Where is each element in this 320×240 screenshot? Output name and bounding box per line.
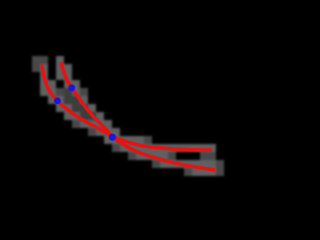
jpeg artifact gray blocks along curves: [32, 56, 224, 176]
marker M1 on curve 1: [54, 97, 61, 104]
marker M2 on curve 2: [68, 84, 75, 91]
curve 1 (left red decay curve, upper tail): [42, 65, 213, 151]
marker M3 at crossing of the curves: [109, 134, 116, 141]
curve 2 (right red decay curve, lower tail): [61, 62, 215, 170]
